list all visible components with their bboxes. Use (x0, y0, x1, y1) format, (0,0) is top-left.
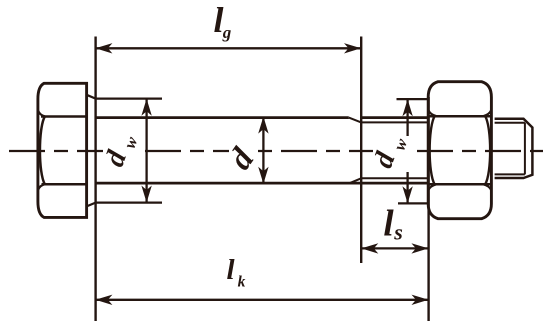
svg-text:g: g (222, 23, 232, 42)
svg-text:k: k (238, 274, 246, 291)
svg-text:s: s (393, 219, 403, 244)
svg-text:l: l (383, 204, 394, 245)
svg-text:l: l (226, 254, 235, 286)
